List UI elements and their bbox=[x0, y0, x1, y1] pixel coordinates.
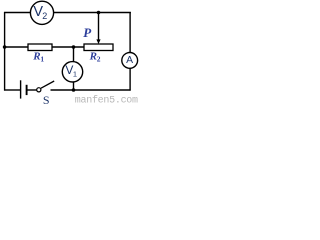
rheostat wiper arrowhead bbox=[96, 39, 100, 44]
resistor R2 (rheostat) body bbox=[84, 44, 113, 51]
svg-text:1: 1 bbox=[40, 54, 44, 63]
svg-text:1: 1 bbox=[73, 69, 77, 78]
switch S contact circle bbox=[37, 88, 41, 92]
wire: bottom rail after switch to right corner bbox=[51, 89, 131, 91]
voltmeter V1 bbox=[62, 62, 82, 82]
wire: bottom rail battery to switch bbox=[28, 89, 37, 91]
battery long plate (+) bbox=[20, 80, 22, 98]
svg-text:P: P bbox=[83, 25, 92, 40]
svg-text:A: A bbox=[126, 55, 133, 66]
wire: V1 bottom feed bbox=[73, 82, 75, 91]
wire: middle rail left to R1 bbox=[5, 46, 29, 48]
svg-text:manfen5.com: manfen5.com bbox=[75, 94, 138, 105]
resistor R1 body bbox=[28, 44, 52, 51]
battery short plate (-) bbox=[26, 85, 28, 95]
svg-text:R: R bbox=[32, 51, 40, 63]
svg-text:R: R bbox=[89, 51, 97, 63]
wire: left vertical bbox=[4, 12, 6, 91]
wire: middle rail R1 to R2 bbox=[52, 46, 85, 48]
svg-text:2: 2 bbox=[42, 11, 47, 21]
node: junction bottom rail / V1 bbox=[72, 88, 76, 92]
wire: V1 top feed bbox=[73, 47, 75, 62]
node: junction middle rail / V1 bbox=[72, 45, 76, 49]
node: junction left rail / middle rail bbox=[3, 45, 7, 49]
svg-text:2: 2 bbox=[97, 54, 101, 63]
wire: bottom rail left segment to battery bbox=[4, 89, 20, 91]
svg-text:S: S bbox=[43, 93, 50, 105]
switch S blade bbox=[41, 81, 54, 88]
ammeter A bbox=[122, 53, 138, 69]
wire: potentiometer wiper feed bbox=[98, 13, 100, 41]
voltmeter V2 bbox=[30, 1, 53, 24]
wire: top rail bbox=[4, 12, 131, 14]
node: junction top rail / wiper bbox=[97, 11, 101, 15]
wire: right vertical bbox=[129, 12, 131, 91]
